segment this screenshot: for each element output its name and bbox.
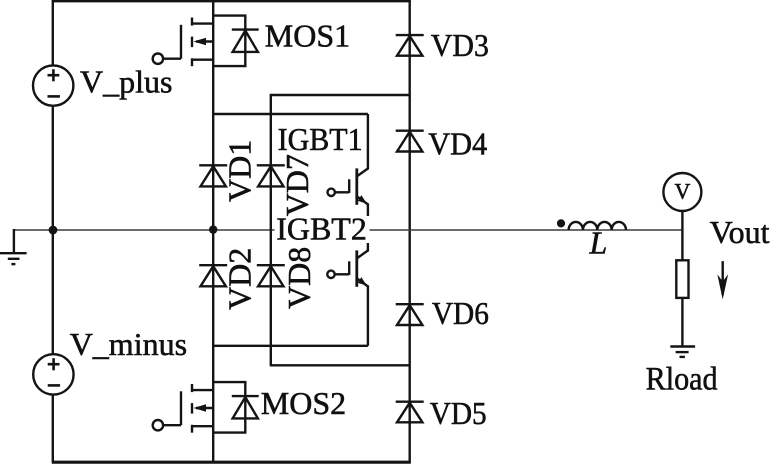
- transistor IGBT1: [328, 114, 368, 230]
- transistor MOS2: [153, 382, 246, 433]
- wire: load branch: [681, 230, 683, 261]
- label IGBT2: [275, 211, 370, 247]
- resistor Rload: [676, 260, 688, 298]
- diode VD3: [396, 35, 424, 56]
- svg-text:VD5: VD5: [430, 395, 487, 431]
- diode VD6: [396, 304, 424, 325]
- wire: right diode column: [409, 0, 411, 462]
- svg-text:V: V: [674, 178, 690, 203]
- wire: top rail: [52, 0, 411, 2]
- svg-text:VD2: VD2: [221, 248, 257, 310]
- inductor L: [569, 222, 626, 230]
- svg-text:IGBT1: IGBT1: [278, 121, 363, 157]
- ground (left): [0, 229, 27, 264]
- svg-text:MOS1: MOS1: [265, 18, 350, 54]
- svg-text:VD8: VD8: [281, 247, 317, 309]
- svg-text:V_minus: V_minus: [70, 326, 187, 362]
- wire: clamp branch (VD7/VD8 vertical with top and bottom ties): [270, 95, 410, 365]
- diode VD1: [199, 165, 227, 186]
- arrow Vout: [717, 261, 728, 299]
- junction node (MOS column / output): [209, 225, 217, 233]
- svg-text:VD7: VD7: [279, 154, 315, 216]
- transistor MOS1: [153, 16, 246, 67]
- ground (right): [670, 347, 695, 357]
- diode VD5: [396, 402, 424, 423]
- voltmeter V: [663, 173, 701, 230]
- diode MOS2 body: [232, 396, 259, 418]
- inductor polarity dot: [557, 219, 565, 227]
- diode MOS1 body: [232, 30, 259, 52]
- svg-text:VD1: VD1: [221, 140, 257, 202]
- svg-text:Rload: Rload: [646, 361, 718, 397]
- IGBT module box: [213, 114, 368, 346]
- wire: MOS leg column: [212, 0, 214, 462]
- wire: bottom rail: [52, 461, 411, 464]
- svg-text:V_plus: V_plus: [80, 63, 172, 99]
- svg-text:L: L: [589, 225, 608, 261]
- transistor IGBT2: [327, 230, 368, 346]
- diode VD2: [199, 265, 227, 286]
- svg-text:VD6: VD6: [432, 295, 489, 331]
- source V_plus: [33, 65, 73, 105]
- svg-text:MOS2: MOS2: [261, 385, 346, 421]
- svg-text:Vout: Vout: [710, 214, 770, 250]
- diode VD4: [396, 131, 424, 152]
- wire: middle output line: [14, 229, 683, 231]
- source V_minus: [33, 354, 73, 394]
- wire: resistor to ground: [681, 298, 683, 347]
- svg-text:VD3: VD3: [431, 27, 489, 63]
- junction node (left rail / output): [49, 226, 58, 235]
- diode VD7: [257, 165, 285, 186]
- wire: left rail: [52, 0, 54, 462]
- diode VD8: [257, 265, 285, 286]
- svg-text:VD4: VD4: [428, 126, 487, 162]
